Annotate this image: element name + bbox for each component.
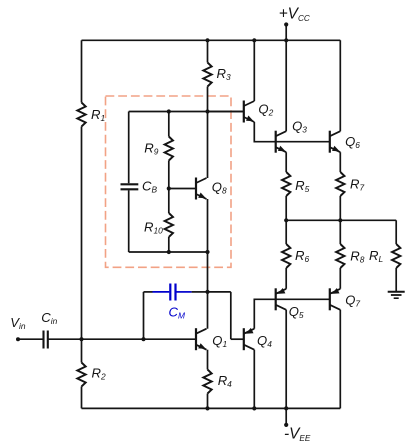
capacitor CB [121, 183, 139, 185]
svg-text:Vin: Vin [10, 315, 26, 331]
wire R5 bottom to output node [285, 196, 287, 220]
bottom -Vee rail wire [82, 407, 341, 409]
svg-text:RL: RL [369, 248, 383, 264]
wire Q8 base [169, 188, 196, 190]
+Vcc terminal dot [284, 22, 288, 26]
svg-text:Q1: Q1 [212, 333, 227, 349]
wire R3 top [207, 40, 209, 62]
wire R9 top segment [168, 112, 170, 137]
Vin terminal dot [16, 337, 20, 341]
junction dot Q5 collector at rail [284, 406, 288, 410]
svg-text:R8: R8 [350, 248, 364, 264]
transistor Q4 [243, 328, 245, 350]
wire lower box line [129, 251, 208, 253]
resistor R7 [336, 172, 344, 196]
transistor Q7 [329, 288, 331, 310]
junction dot R7/R8 output [338, 218, 342, 222]
resistor R6 [282, 244, 290, 268]
node input/R1/R2 junction dot [79, 337, 83, 341]
wire Q2 base from node B [208, 111, 244, 113]
wire Q8 emitter line down to CM node [207, 252, 209, 292]
svg-text:R4: R4 [218, 373, 232, 389]
transistor Q6 [329, 131, 331, 153]
svg-text:Q8: Q8 [212, 180, 227, 196]
junction dot Q8 base tap [167, 186, 171, 190]
wire Q6 collector to rail corner [339, 40, 341, 131]
wire R8 bottom to Q7 emitter [339, 268, 341, 289]
wire Q4 base horizontal [231, 338, 244, 340]
wire Q8 emitter down to lower box line [207, 199, 209, 252]
svg-text:R3: R3 [217, 66, 231, 82]
resistor R3 [203, 63, 211, 87]
top +Vcc rail wire [82, 39, 341, 41]
junction dot R3 top [205, 38, 209, 42]
resistor R9 [165, 137, 173, 161]
wire R3 bottom to node B [207, 87, 209, 112]
svg-text:CM: CM [169, 304, 185, 320]
junction dot R9 top [167, 109, 171, 113]
wire Q3 emitter to R5 [285, 152, 287, 172]
wire CM left horizontal black [144, 291, 153, 293]
wire output node to R8 [339, 220, 341, 244]
wire Q1 emitter to R4 [207, 350, 209, 370]
wire Q8 collector to node B [207, 112, 209, 179]
junction dot CM tap on input line [141, 337, 145, 341]
svg-text:R2: R2 [92, 365, 106, 381]
wire Vin to Cin [18, 338, 44, 340]
transistor Q8 [195, 178, 197, 200]
wire Q4 emitter riser to Q5/Q7 base line [254, 299, 329, 328]
wire CB bottom [128, 190, 130, 252]
node B junction dot (R3/Q8 collector/R9 line) [205, 109, 209, 113]
ground symbol [388, 291, 405, 293]
wire R6 bottom to Q5 emitter [285, 268, 287, 289]
svg-text:R5: R5 [295, 178, 309, 194]
wire Q7 collector down to rail corner [339, 310, 341, 409]
resistor R4 [203, 370, 211, 394]
wire input node to R2 [81, 339, 83, 362]
wire Q6 emitter to R7 [339, 152, 341, 172]
resistor R10 [165, 213, 173, 237]
+Vcc stub wire [285, 25, 287, 41]
wire Q2 collector to rail [253, 40, 255, 101]
input line wire to Q1 base [82, 338, 197, 340]
transistor Q1 [195, 328, 197, 350]
wire Q2 emitter down and right to Q3/Q6 base line [254, 122, 329, 142]
svg-text:Q3: Q3 [292, 119, 307, 135]
svg-text:Q4: Q4 [257, 333, 272, 349]
svg-text:-VEE: -VEE [284, 425, 311, 442]
wire R10 bottom [168, 237, 170, 252]
-Vee terminal dot [284, 423, 288, 427]
svg-text:Q7: Q7 [345, 293, 360, 309]
wire Q3 collector to rail [285, 40, 287, 131]
wire upper box line CB to Q2 base [129, 111, 244, 113]
svg-text:R7: R7 [350, 176, 364, 192]
node CM junction dot (Q1 collector) [205, 290, 209, 294]
wire R4 bottom to rail [207, 394, 209, 409]
svg-text:R1: R1 [91, 107, 105, 123]
transistor Q2 [243, 101, 245, 123]
svg-text:Cin: Cin [41, 310, 57, 326]
wire Q4 base link horizontal from CM node [208, 291, 231, 293]
wire R2 bottom to bottom rail [81, 387, 83, 409]
-Vee stub wire [285, 408, 287, 425]
svg-text:Q2: Q2 [258, 102, 273, 118]
wire Q4 collector to bottom rail [253, 350, 255, 409]
junction dot Q8 emitter at lower box line [205, 250, 209, 254]
wire output node to R6 [285, 220, 287, 244]
wire CM loop left riser [143, 292, 145, 339]
svg-text:+VCC: +VCC [279, 6, 310, 23]
junction dot Q4 collector at rail [252, 406, 256, 410]
junction dot R4 at bottom rail [205, 406, 209, 410]
svg-text:Q6: Q6 [345, 134, 360, 150]
transistor Q3 [275, 131, 277, 153]
svg-text:R10: R10 [144, 219, 163, 235]
resistor R1 [77, 103, 85, 127]
wire CM right blue [177, 291, 192, 293]
resistor R5 [282, 172, 290, 196]
svg-text:CB: CB [142, 179, 157, 195]
transistor Q5 [275, 288, 277, 310]
wire Cin to input node [48, 338, 82, 340]
wire CM right black to node [192, 291, 208, 293]
junction dot Q2 collector at rail [252, 38, 256, 42]
junction dot Vcc stub at rail [284, 38, 288, 42]
resistor R8 [336, 244, 344, 268]
wire left column upper (rail to R1) [81, 40, 83, 102]
wire Q5 collector down to bottom rail [285, 310, 287, 409]
capacitor CM blue plates [169, 284, 171, 301]
svg-text:R9: R9 [144, 141, 158, 157]
dashed feedback-network box [106, 96, 232, 267]
junction dot R10 bottom [167, 250, 171, 254]
wire Q4 base riser vertical [230, 292, 232, 339]
junction dot R5/R6 output [284, 218, 288, 222]
wire CM left blue [153, 291, 170, 293]
resistor R2 [77, 363, 85, 387]
wire RL top [395, 220, 397, 244]
svg-text:Q5: Q5 [289, 304, 304, 320]
wire R1 bottom to input node [81, 127, 83, 340]
resistor RL [392, 244, 400, 268]
wire output line [286, 219, 396, 221]
wire R9 to R10 [168, 161, 170, 214]
wire CB top [128, 112, 130, 184]
wire CM node down to Q1 collector [207, 292, 209, 329]
wire R7 bottom to output line [339, 196, 341, 220]
svg-text:R6: R6 [295, 248, 309, 264]
wire RL bottom to ground [395, 268, 397, 292]
capacitor Cin [42, 331, 44, 349]
